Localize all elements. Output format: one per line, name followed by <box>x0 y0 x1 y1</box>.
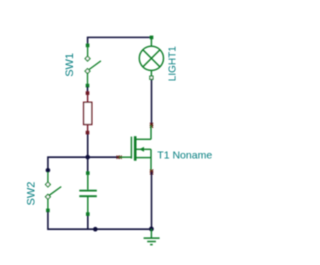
switch SW1 <box>85 47 101 85</box>
wire SW1 to R1 <box>87 87 89 93</box>
node C1 top terminal <box>86 171 90 175</box>
wire capacitor to bottom rail <box>87 216 89 230</box>
junction node dot <box>85 155 90 160</box>
wire R1 to node <box>87 134 89 157</box>
pin mark T1 drain X <box>150 123 153 128</box>
junction dot bottom rail <box>93 227 98 232</box>
switch SW2 <box>45 172 61 209</box>
node lamp top terminal <box>150 36 154 40</box>
node SW2 top dot <box>46 168 51 173</box>
wire node row to SW2 and gate <box>48 157 120 170</box>
arrow T1 body <box>139 147 144 152</box>
resistor R1 <box>84 95 92 132</box>
node SW2 bottom terminal <box>46 209 50 213</box>
capacitor C1 <box>79 175 97 213</box>
ground <box>144 229 160 245</box>
svg-text:SW2: SW2 <box>25 182 37 206</box>
wire T1 source to ground node <box>151 172 153 229</box>
node R1 bottom pin square <box>86 131 90 135</box>
svg-text:T1 Noname: T1 Noname <box>157 150 212 162</box>
wire node to capacitor <box>87 157 89 172</box>
wire lamp to T1 drain <box>151 80 153 126</box>
transistor T1 NMOS <box>119 125 151 172</box>
junction dot ground node <box>149 227 154 232</box>
node SW1 top terminal <box>86 44 90 48</box>
node SW1 bottom terminal <box>86 84 90 88</box>
node lamp bottom open terminal <box>150 76 153 79</box>
wire top horizontal from SW1 to LIGHT1 <box>88 37 152 45</box>
node C1 bottom terminal <box>86 212 90 216</box>
wire SW2 to bottom rail <box>48 212 151 230</box>
svg-text:LIGHT1: LIGHT1 <box>167 46 178 81</box>
svg-text:SW1: SW1 <box>64 53 76 77</box>
pin mark T1 gate X <box>117 156 122 159</box>
pin mark T1 source X <box>150 170 153 175</box>
lamp LIGHT1 <box>139 38 163 76</box>
node R1 top pin square <box>86 91 90 95</box>
